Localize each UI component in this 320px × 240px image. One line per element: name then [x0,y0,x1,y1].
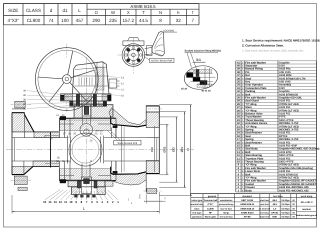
svg-text:40 41 42: 40 41 42 [201,89,211,92]
svg-text:ØW: ØW [180,147,184,153]
svg-text:-29~+121 C: -29~+121 C [300,201,313,204]
inconel overlay label [114,141,141,145]
svg-text:4"X3": 4"X3" [207,203,213,206]
bore line top [12,137,69,139]
gear operator top view [118,37,150,73]
parts list table [236,61,320,192]
svg-text:ASME B16.34: ASME B16.34 [240,203,255,206]
svg-text:nominal size: nominal size [190,203,204,206]
svg-text:test insp.: test insp. [260,212,270,215]
svg-text:2. Corrosion Allowance 3mm.: 2. Corrosion Allowance 3mm. [242,44,284,48]
svg-text:A182 F51+INCONEL 625: A182 F51+INCONEL 625 [279,189,309,192]
svg-text:d: d [50,8,53,13]
svg-text:14: 14 [48,200,52,204]
svg-text:X: X [127,10,130,15]
svg-text:CL900: CL900 [207,207,214,210]
svg-text:T: T [164,197,166,201]
svg-text:drain test: drain test [260,216,270,219]
svg-text:air seal test: air seal test [259,207,271,210]
trunnion bearing and bolts [75,177,98,197]
svg-text:ASME B16.10: ASME B16.10 [240,207,255,210]
seat rings [67,136,103,164]
svg-text:end type: end type [192,212,202,215]
right flange bolt centerline [148,108,162,110]
trunnion shaft lines [82,164,90,178]
pipe weld joint [50,132,52,168]
svg-text:Ø27.03: Ø27.03 [96,130,104,133]
svg-text:API 6D: API 6D [244,216,251,219]
svg-text:T: T [142,10,145,15]
svg-text:standard: standard [242,195,252,198]
svg-text:CLASS: CLASS [26,8,41,13]
svg-text:11: 11 [64,200,67,204]
detail scale label [193,58,206,62]
handwheel [35,44,98,113]
svg-text:NDE: NDE [272,216,277,219]
svg-text:Sealant injection fitting M20(: Sealant injection fitting M20(2x) [185,49,222,52]
svg-text:operation: operation [192,216,203,219]
svg-text:d1: d1 [62,8,68,13]
svg-text:157.2: 157.2 [123,18,135,23]
stem boss and gland [74,105,113,119]
dimension Od1 [159,124,168,174]
svg-text:12: 12 [59,200,63,204]
svg-text:Worm gear: Worm gear [205,216,217,219]
right weld-neck flange [146,106,159,174]
svg-text:7: 7 [191,18,194,23]
svg-text:ASME B16.5: ASME B16.5 [241,212,255,215]
svg-text:L: L [78,8,81,13]
svg-text:Trunnion ball: Trunnion ball [204,199,218,202]
svg-text:GB/T 12234: GB/T 12234 [241,199,254,202]
title block table [190,194,317,219]
bore line bottom [12,160,69,162]
horizontal centerline [6,149,194,151]
gearbox housing [73,62,110,94]
svg-text:44.5: 44.5 [139,18,148,23]
svg-text:test and insp: test and insp [220,216,234,219]
svg-text:235: 235 [109,18,117,23]
svg-text:ØD: ØD [172,146,176,151]
svg-text:5mm Inconel 625: 5mm Inconel 625 [118,142,138,145]
vertical stem centerline [85,57,87,199]
svg-text:SIZE: SIZE [8,8,18,13]
gearbox callout leaders [109,77,125,98]
svg-text:NOTCH INDICATOR: NOTCH INDICATOR [151,60,173,63]
dimension OD [159,117,178,182]
svg-text:flange: flange [223,212,230,215]
svg-text:Ød2: Ød2 [150,146,154,152]
left body bolted joint [60,116,70,183]
dimension OW bolt circle [159,112,186,188]
svg-text:100: 100 [61,18,69,23]
drain boss [105,181,113,186]
svg-text:15: 15 [43,200,47,204]
notes text block [242,39,320,53]
svg-text:3. Seat insert, anti-blow-out: 3. Seat insert, anti-blow-out stem, DBB,… [242,49,304,52]
svg-text:8: 8 [159,18,162,23]
svg-text:32: 32 [176,18,182,23]
valve body centre block [59,118,116,180]
ball [69,133,102,166]
svg-text:CL900: CL900 [27,18,41,23]
detail callout numbers [181,81,211,92]
dimension T flange thickness [138,194,166,204]
svg-text:10: 10 [69,200,73,204]
callout numbers left column [23,90,78,111]
dimension O flange OD [159,105,192,196]
svg-text:test item: test item [273,195,282,198]
svg-text:seal test: seal test [260,203,269,206]
right body closure sloped wall top [109,106,146,127]
gearbox adapter plates [61,94,112,107]
left weld-neck flange [12,109,59,175]
dimension L face to face [12,192,159,214]
left flange top stud and nut [11,101,32,108]
svg-text:35 34: 35 34 [181,87,188,90]
notch indicator label [145,57,175,63]
stem lower circle [84,129,89,134]
svg-text:4"X3": 4"X3" [8,18,20,23]
stem lower collar circle [80,124,93,137]
worm shaft end cap [109,79,120,88]
right body closure sloped wall bottom [111,167,147,192]
right body seat joint [111,126,124,174]
bottom trunnion plate [68,181,105,195]
svg-text:W: W [111,10,115,15]
svg-text:0.6 Mpa: 0.6 Mpa [281,207,290,210]
svg-text:Medium:water,gas,oil: Medium:water,gas,oil [296,214,317,217]
svg-text:class: class [194,207,200,210]
svg-text:shell test: shell test [260,199,269,202]
svg-text:N: N [159,10,162,15]
svg-text:0.6 Mpa: 0.6 Mpa [281,216,290,219]
svg-text:manufacture: manufacture [220,199,233,202]
svg-text:general: general [208,195,217,198]
svg-text:Ød1: Ød1 [162,146,166,152]
svg-text:face to face: face to face [220,207,232,210]
svg-text:74: 74 [48,18,54,23]
svg-text:0.6 Mpa: 0.6 Mpa [281,212,290,215]
svg-text:457: 457 [76,18,84,23]
svg-text:3:1: 3:1 [196,58,201,62]
svg-text:76.6: 76.6 [138,194,141,199]
svg-text:API 6D: API 6D [271,212,278,215]
left flange bottom stud and nut [11,176,32,190]
locking label [160,29,178,35]
callout numbers upper body [44,114,120,164]
svg-text:13: 13 [54,200,58,204]
svg-text:1. Sour Service requirement: N: 1. Sour Service requirement: NACE MR0175… [242,39,320,43]
left hub taper and pipe outline [24,115,59,175]
svg-text:ASME B16.5: ASME B16.5 [130,4,156,9]
svg-text:290: 290 [92,18,100,23]
right flange bottom stud and nut [144,189,163,194]
svg-text:pressure/temp: pressure/temp [219,203,234,206]
gasket dimension inside right flange [150,126,155,172]
top view handwheel fan [145,32,165,56]
sealant injection label [185,49,222,72]
top dimension table [4,4,200,25]
svg-text:0.6 Mpa: 0.6 Mpa [281,199,290,202]
seat detail ellipse [183,64,220,92]
svg-text:valve type: valve type [192,199,203,202]
part callout numbers bottom row [43,190,133,205]
svg-text:work temp: work temp [301,195,313,198]
svg-text:medium: medium [302,208,311,211]
svg-text:0.6 Mpa: 0.6 Mpa [281,203,290,206]
svg-text:Body: Body [245,189,252,192]
